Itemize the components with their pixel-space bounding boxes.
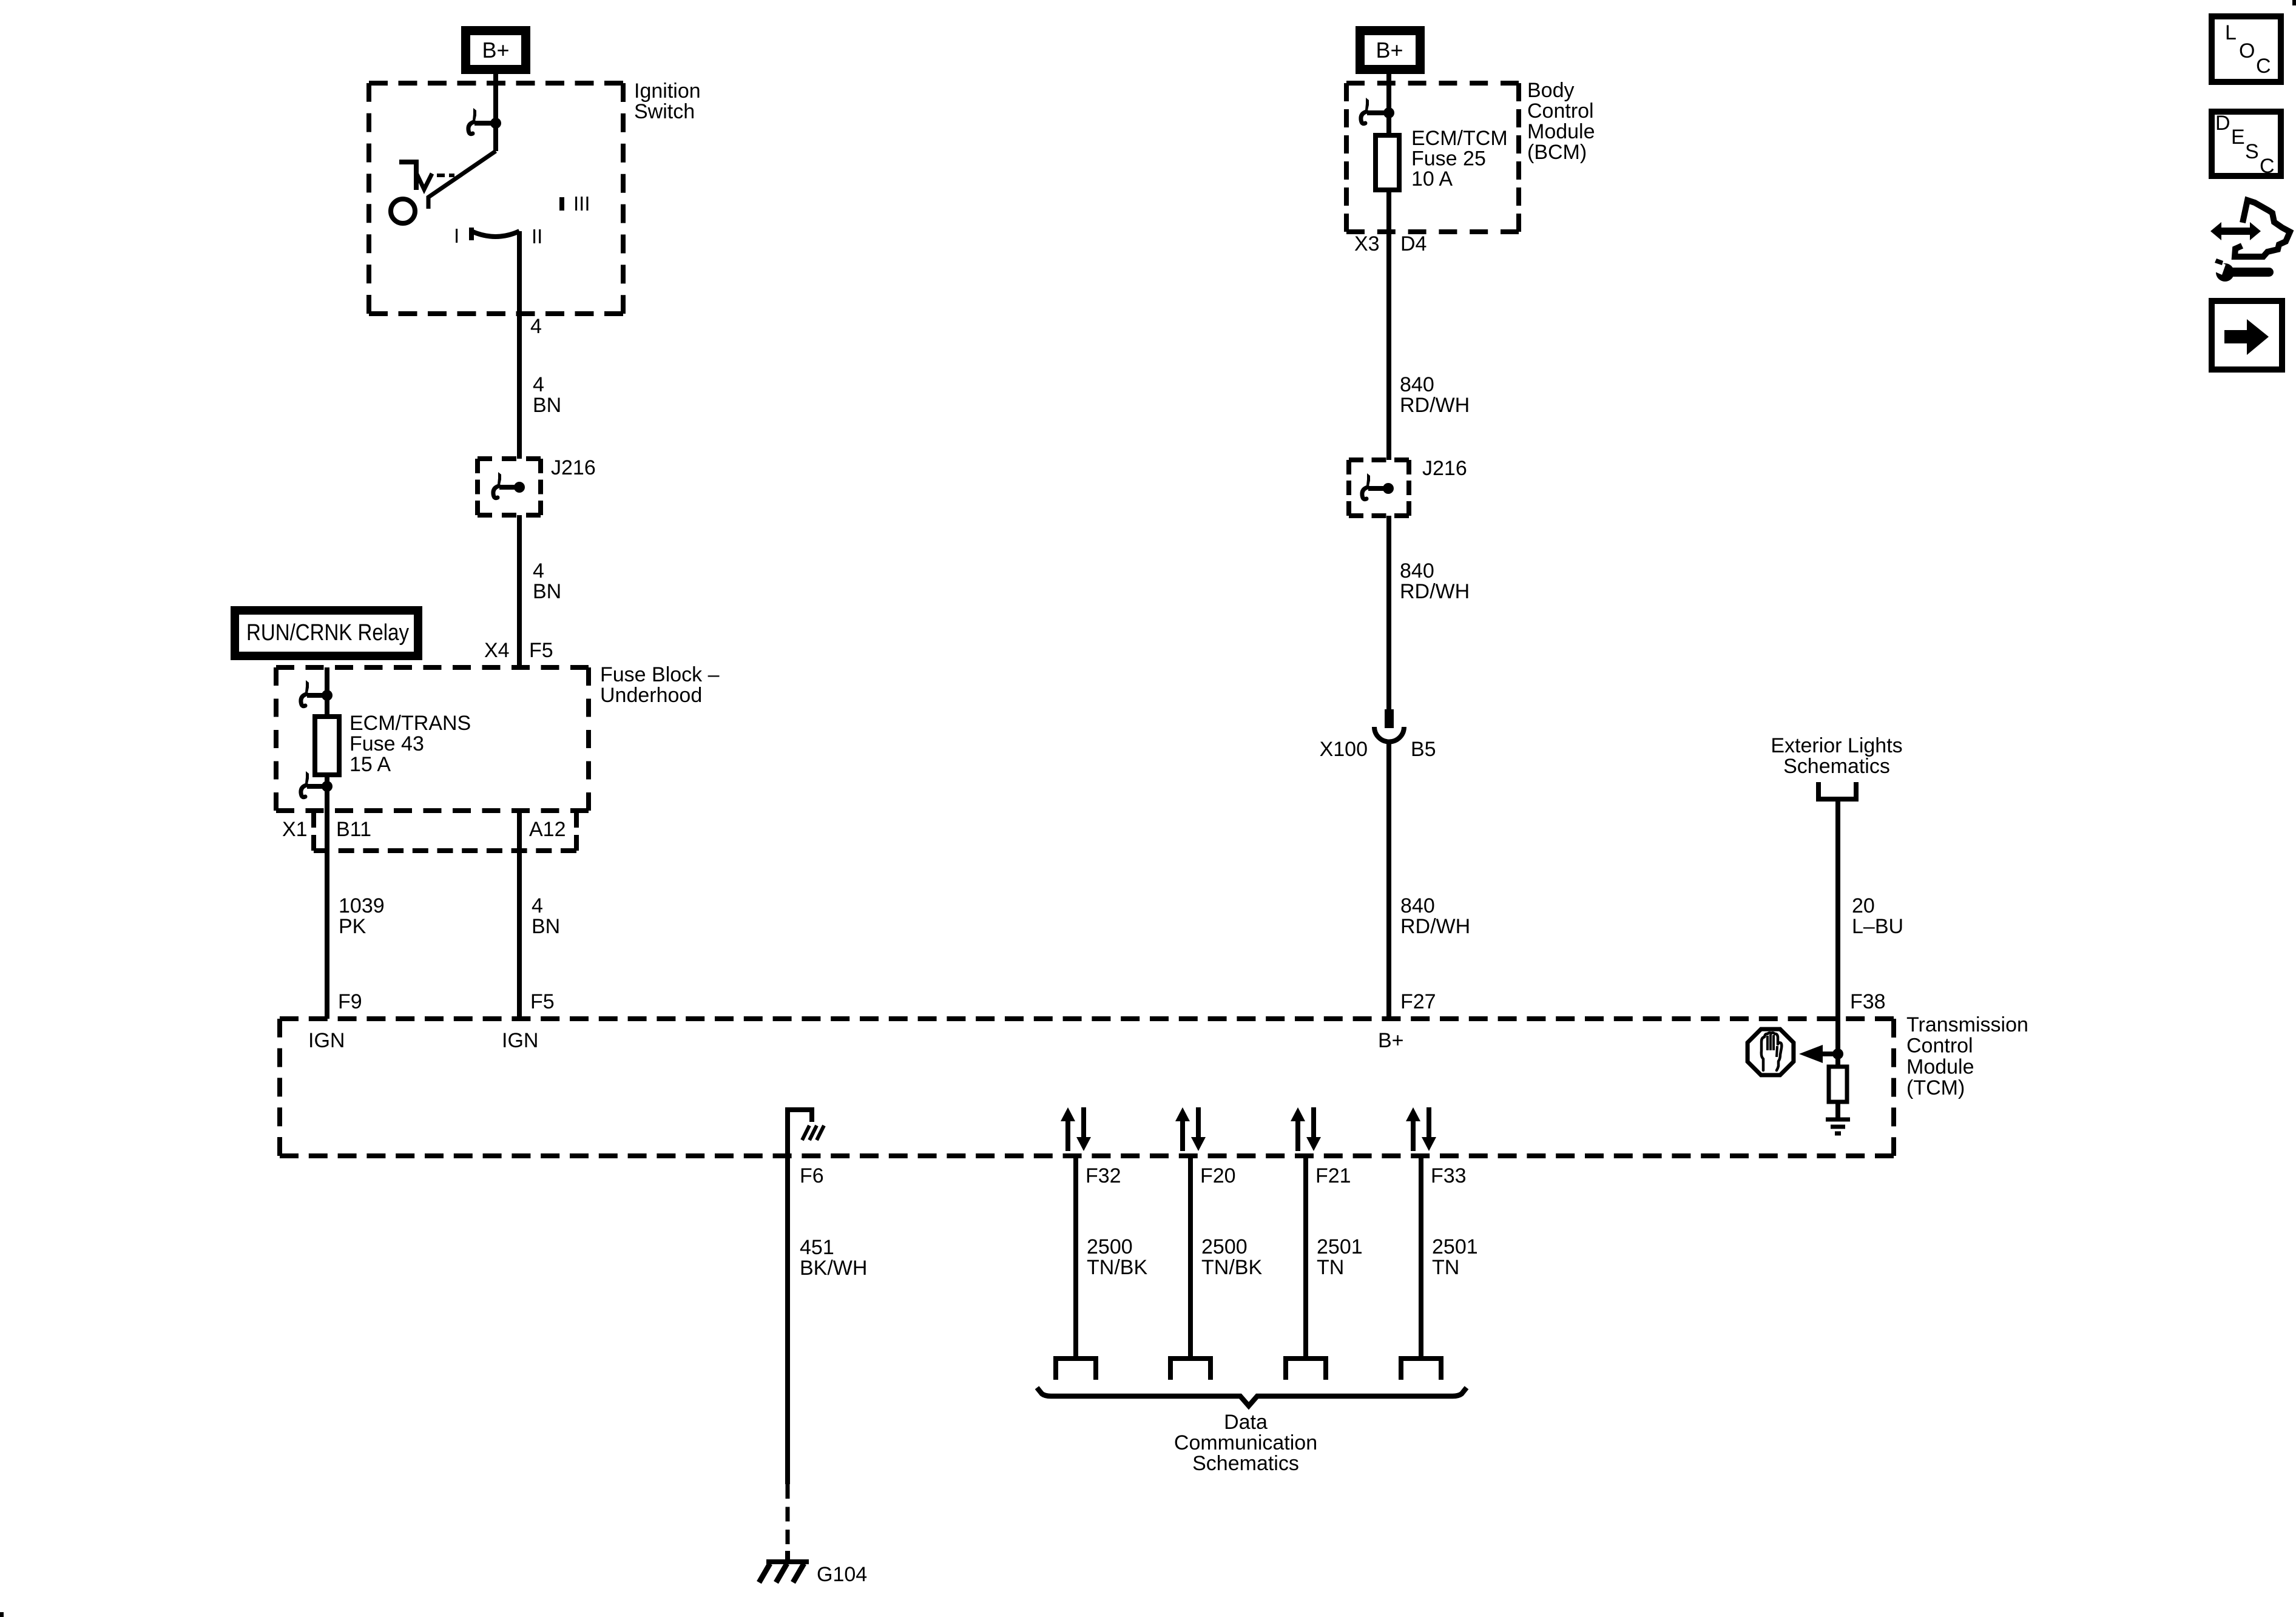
wire serial data F33 <box>1419 1156 1423 1359</box>
svg-text:2501: 2501 <box>1432 1235 1478 1258</box>
svg-text:X3: X3 <box>1354 232 1380 255</box>
fuse F43 top clip <box>305 680 309 693</box>
inline connector X100 female half <box>1374 727 1404 742</box>
LOC icon box <box>2212 16 2281 82</box>
battery feed B+ terminal (right) <box>1356 26 1425 74</box>
svg-text:Switch: Switch <box>634 100 695 123</box>
svg-text:2500: 2500 <box>1087 1235 1133 1258</box>
svg-text:Ignition: Ignition <box>634 79 701 103</box>
wire fuse 25 output <box>1386 190 1391 460</box>
svg-text:III: III <box>573 192 590 215</box>
BCM fuse top clip <box>1365 98 1369 110</box>
DESC icon box <box>2212 112 2281 176</box>
node: fuse 43 bottom <box>322 781 333 792</box>
svg-text:1039: 1039 <box>339 894 385 917</box>
svg-text:BN: BN <box>533 394 561 417</box>
wire serial data F32 <box>1073 1156 1078 1359</box>
serial data arrows at F33 <box>1411 1119 1416 1151</box>
page artifact mark top-right <box>2292 0 2296 5</box>
svg-text:D4: D4 <box>1400 232 1427 255</box>
adjust icon double arrow <box>2210 222 2261 240</box>
svg-text:F6: F6 <box>800 1164 824 1187</box>
splice J216 (left) clip <box>498 472 501 485</box>
svg-text:A12: A12 <box>529 818 566 841</box>
wire F38 to stop node <box>1835 1019 1840 1067</box>
svg-text:TN/BK: TN/BK <box>1087 1256 1147 1279</box>
svg-text:B+: B+ <box>482 38 509 62</box>
serial data arrows at F20 <box>1180 1119 1185 1151</box>
TCM internal ground (F6) <box>788 1110 812 1156</box>
svg-text:F5: F5 <box>530 990 555 1013</box>
adjust icon outline shape <box>2235 200 2290 257</box>
off-page terminator F32 <box>1056 1359 1096 1380</box>
go-to arrow icon box <box>2212 301 2282 370</box>
svg-text:Transmission: Transmission <box>1906 1013 2028 1036</box>
svg-text:F33: F33 <box>1431 1164 1467 1187</box>
serial data arrows at F21 <box>1295 1119 1300 1151</box>
svg-text:D: D <box>2215 112 2230 135</box>
data comm brace <box>1037 1388 1467 1406</box>
svg-text:2500: 2500 <box>1201 1235 1248 1258</box>
TCM internal ground symbol <box>1826 1118 1850 1122</box>
svg-text:(TCM): (TCM) <box>1906 1076 1965 1099</box>
fuse F43 bottom clip <box>305 771 309 784</box>
svg-text:Control: Control <box>1527 100 1594 123</box>
svg-text:Control: Control <box>1906 1035 1973 1058</box>
node: splice J216 (left) <box>514 482 525 493</box>
transmission control module dashed outline <box>280 1016 1894 1021</box>
node: fuse 43 top <box>322 690 333 701</box>
svg-text:BN: BN <box>533 580 561 603</box>
node: ignition switch feed junction <box>490 118 501 129</box>
RUN/CRNK Relay label box <box>231 606 422 660</box>
position III contact tick <box>559 197 564 211</box>
svg-text:4: 4 <box>533 373 544 396</box>
svg-text:Underhood: Underhood <box>600 684 702 707</box>
svg-text:TN: TN <box>1317 1256 1344 1279</box>
svg-text:I: I <box>454 224 459 247</box>
ignition lock cylinder circle <box>391 199 415 223</box>
svg-text:4: 4 <box>533 559 544 582</box>
splice J216 (right) clip <box>1366 473 1370 486</box>
svg-text:BN: BN <box>532 915 560 938</box>
svg-text:4: 4 <box>532 894 543 917</box>
stop-hand arrow <box>1821 1052 1838 1056</box>
svg-text:840: 840 <box>1400 894 1435 917</box>
rotor contact arc <box>471 231 519 237</box>
ignition switch S39 dashed outline <box>369 81 623 86</box>
off-page terminator F33 <box>1401 1359 1441 1380</box>
svg-text:B+: B+ <box>1376 38 1403 62</box>
svg-text:Data: Data <box>1224 1411 1268 1434</box>
wire ignition output circuit 4 <box>517 231 522 459</box>
TCM internal resistor <box>1829 1067 1847 1102</box>
svg-text:PK: PK <box>339 915 366 938</box>
node: TCM F38 internal <box>1832 1048 1843 1059</box>
svg-text:20: 20 <box>1852 894 1875 917</box>
svg-text:X4: X4 <box>484 639 510 662</box>
ignition switch input clip <box>473 108 476 121</box>
wire circuit 4 BN to TCM <box>517 811 522 1019</box>
ignition switch movable blade <box>493 123 498 151</box>
wire B+ to BCM <box>1386 74 1391 137</box>
ignition key symbol <box>399 162 416 190</box>
svg-text:C: C <box>2256 55 2271 78</box>
svg-text:II: II <box>532 225 542 248</box>
off-page connector bracket <box>1818 782 1856 799</box>
wire fuse 43 bottom <box>325 775 329 811</box>
serial data arrows at F32 <box>1065 1119 1070 1151</box>
stop-hand octagon U-icon <box>1747 1029 1794 1075</box>
position I contact tick <box>469 228 474 240</box>
adjust icon wrench <box>2216 263 2234 282</box>
svg-text:451: 451 <box>800 1236 834 1259</box>
svg-text:C: C <box>2260 155 2275 178</box>
svg-text:Module: Module <box>1906 1055 1974 1078</box>
splice J216 (left) dashed box <box>478 456 541 461</box>
fuse ECM/TRANS Fuse 43 15 A element <box>315 717 339 775</box>
wire 840 RD/WH to X100 <box>1386 516 1391 709</box>
fuse ECM/TCM Fuse 25 10 A element <box>1376 135 1399 190</box>
wire circuit 451 BK/WH <box>785 1156 790 1484</box>
svg-text:L–BU: L–BU <box>1852 915 1903 938</box>
battery feed B+ terminal (left) <box>461 26 530 74</box>
wire circuit 20 L-BU <box>1835 799 1840 1019</box>
stop-hand glyph <box>1761 1033 1782 1070</box>
svg-text:Fuse Block –: Fuse Block – <box>600 663 720 686</box>
svg-text:RD/WH: RD/WH <box>1400 580 1470 603</box>
svg-text:X100: X100 <box>1320 738 1368 761</box>
svg-text:IGN: IGN <box>502 1029 538 1052</box>
svg-text:Communication: Communication <box>1174 1431 1317 1454</box>
wire relay output inside fuse block <box>325 667 329 717</box>
svg-text:F38: F38 <box>1850 990 1886 1013</box>
svg-text:Exterior Lights: Exterior Lights <box>1771 734 1902 757</box>
svg-text:Schematics: Schematics <box>1192 1452 1299 1475</box>
wire 840 RD/WH to TCM F27 <box>1386 741 1391 1019</box>
wire 451 dashed continuation <box>786 1484 790 1544</box>
wire serial data F20 <box>1188 1156 1193 1359</box>
fuse block underhood dashed outline <box>276 665 589 670</box>
svg-text:15 A: 15 A <box>349 753 391 776</box>
svg-text:ECM/TCM: ECM/TCM <box>1411 127 1508 150</box>
svg-text:F20: F20 <box>1200 1164 1236 1187</box>
svg-text:4: 4 <box>530 315 542 338</box>
page artifact dot bottom-left <box>0 1612 4 1617</box>
svg-text:Fuse 25: Fuse 25 <box>1411 147 1486 170</box>
svg-text:RD/WH: RD/WH <box>1400 915 1470 938</box>
wire resistor to ground <box>1835 1102 1840 1119</box>
svg-text:O: O <box>2239 39 2255 62</box>
svg-text:J216: J216 <box>1422 457 1467 480</box>
wire circuit 1039 PK <box>325 811 329 1019</box>
svg-text:F27: F27 <box>1400 990 1436 1013</box>
svg-text:F21: F21 <box>1315 1164 1351 1187</box>
wire circuit 4 BN to fuse block <box>517 515 522 667</box>
svg-text:ECM/TRANS: ECM/TRANS <box>349 712 471 735</box>
svg-text:840: 840 <box>1400 373 1434 396</box>
wire B+ to ignition switch <box>493 74 498 124</box>
svg-text:L: L <box>2225 21 2237 44</box>
svg-text:E: E <box>2231 126 2245 149</box>
svg-text:Schematics: Schematics <box>1783 755 1890 778</box>
node: BCM fuse feed <box>1383 107 1394 118</box>
svg-text:F9: F9 <box>338 990 362 1013</box>
svg-text:840: 840 <box>1400 559 1434 582</box>
off-page terminator F20 <box>1170 1359 1210 1380</box>
svg-text:Module: Module <box>1527 120 1595 143</box>
svg-text:F5: F5 <box>529 639 553 662</box>
svg-text:F32: F32 <box>1086 1164 1121 1187</box>
inline connector X100 pin B5 male half <box>1385 709 1394 728</box>
splice J216 (right) dashed box <box>1349 457 1409 462</box>
svg-text:TN: TN <box>1432 1256 1459 1279</box>
off-page terminator F21 <box>1286 1359 1326 1380</box>
svg-text:BK/WH: BK/WH <box>800 1257 867 1280</box>
svg-text:(BCM): (BCM) <box>1527 141 1587 164</box>
node: splice J216 (right) <box>1383 483 1394 494</box>
svg-text:X1: X1 <box>282 818 308 841</box>
svg-text:Fuse 43: Fuse 43 <box>349 732 424 755</box>
svg-text:RD/WH: RD/WH <box>1400 394 1470 417</box>
svg-text:B5: B5 <box>1411 738 1436 761</box>
svg-text:10 A: 10 A <box>1411 167 1453 191</box>
svg-text:S: S <box>2245 140 2259 163</box>
svg-text:Body: Body <box>1527 79 1575 102</box>
body control module dashed outline <box>1346 81 1519 86</box>
ground G104 symbol <box>785 1551 790 1562</box>
svg-text:RUN/CRNK Relay: RUN/CRNK Relay <box>246 620 409 646</box>
wire serial data F21 <box>1303 1156 1308 1359</box>
svg-text:IGN: IGN <box>308 1029 345 1052</box>
svg-text:B11: B11 <box>336 818 371 841</box>
svg-text:TN/BK: TN/BK <box>1201 1256 1262 1279</box>
svg-text:B+: B+ <box>1378 1029 1404 1052</box>
fuse block connector tab <box>311 812 316 851</box>
svg-text:J216: J216 <box>551 456 596 479</box>
svg-text:G104: G104 <box>817 1563 867 1586</box>
chassis ground hatch <box>802 1126 809 1140</box>
svg-text:2501: 2501 <box>1317 1235 1363 1258</box>
